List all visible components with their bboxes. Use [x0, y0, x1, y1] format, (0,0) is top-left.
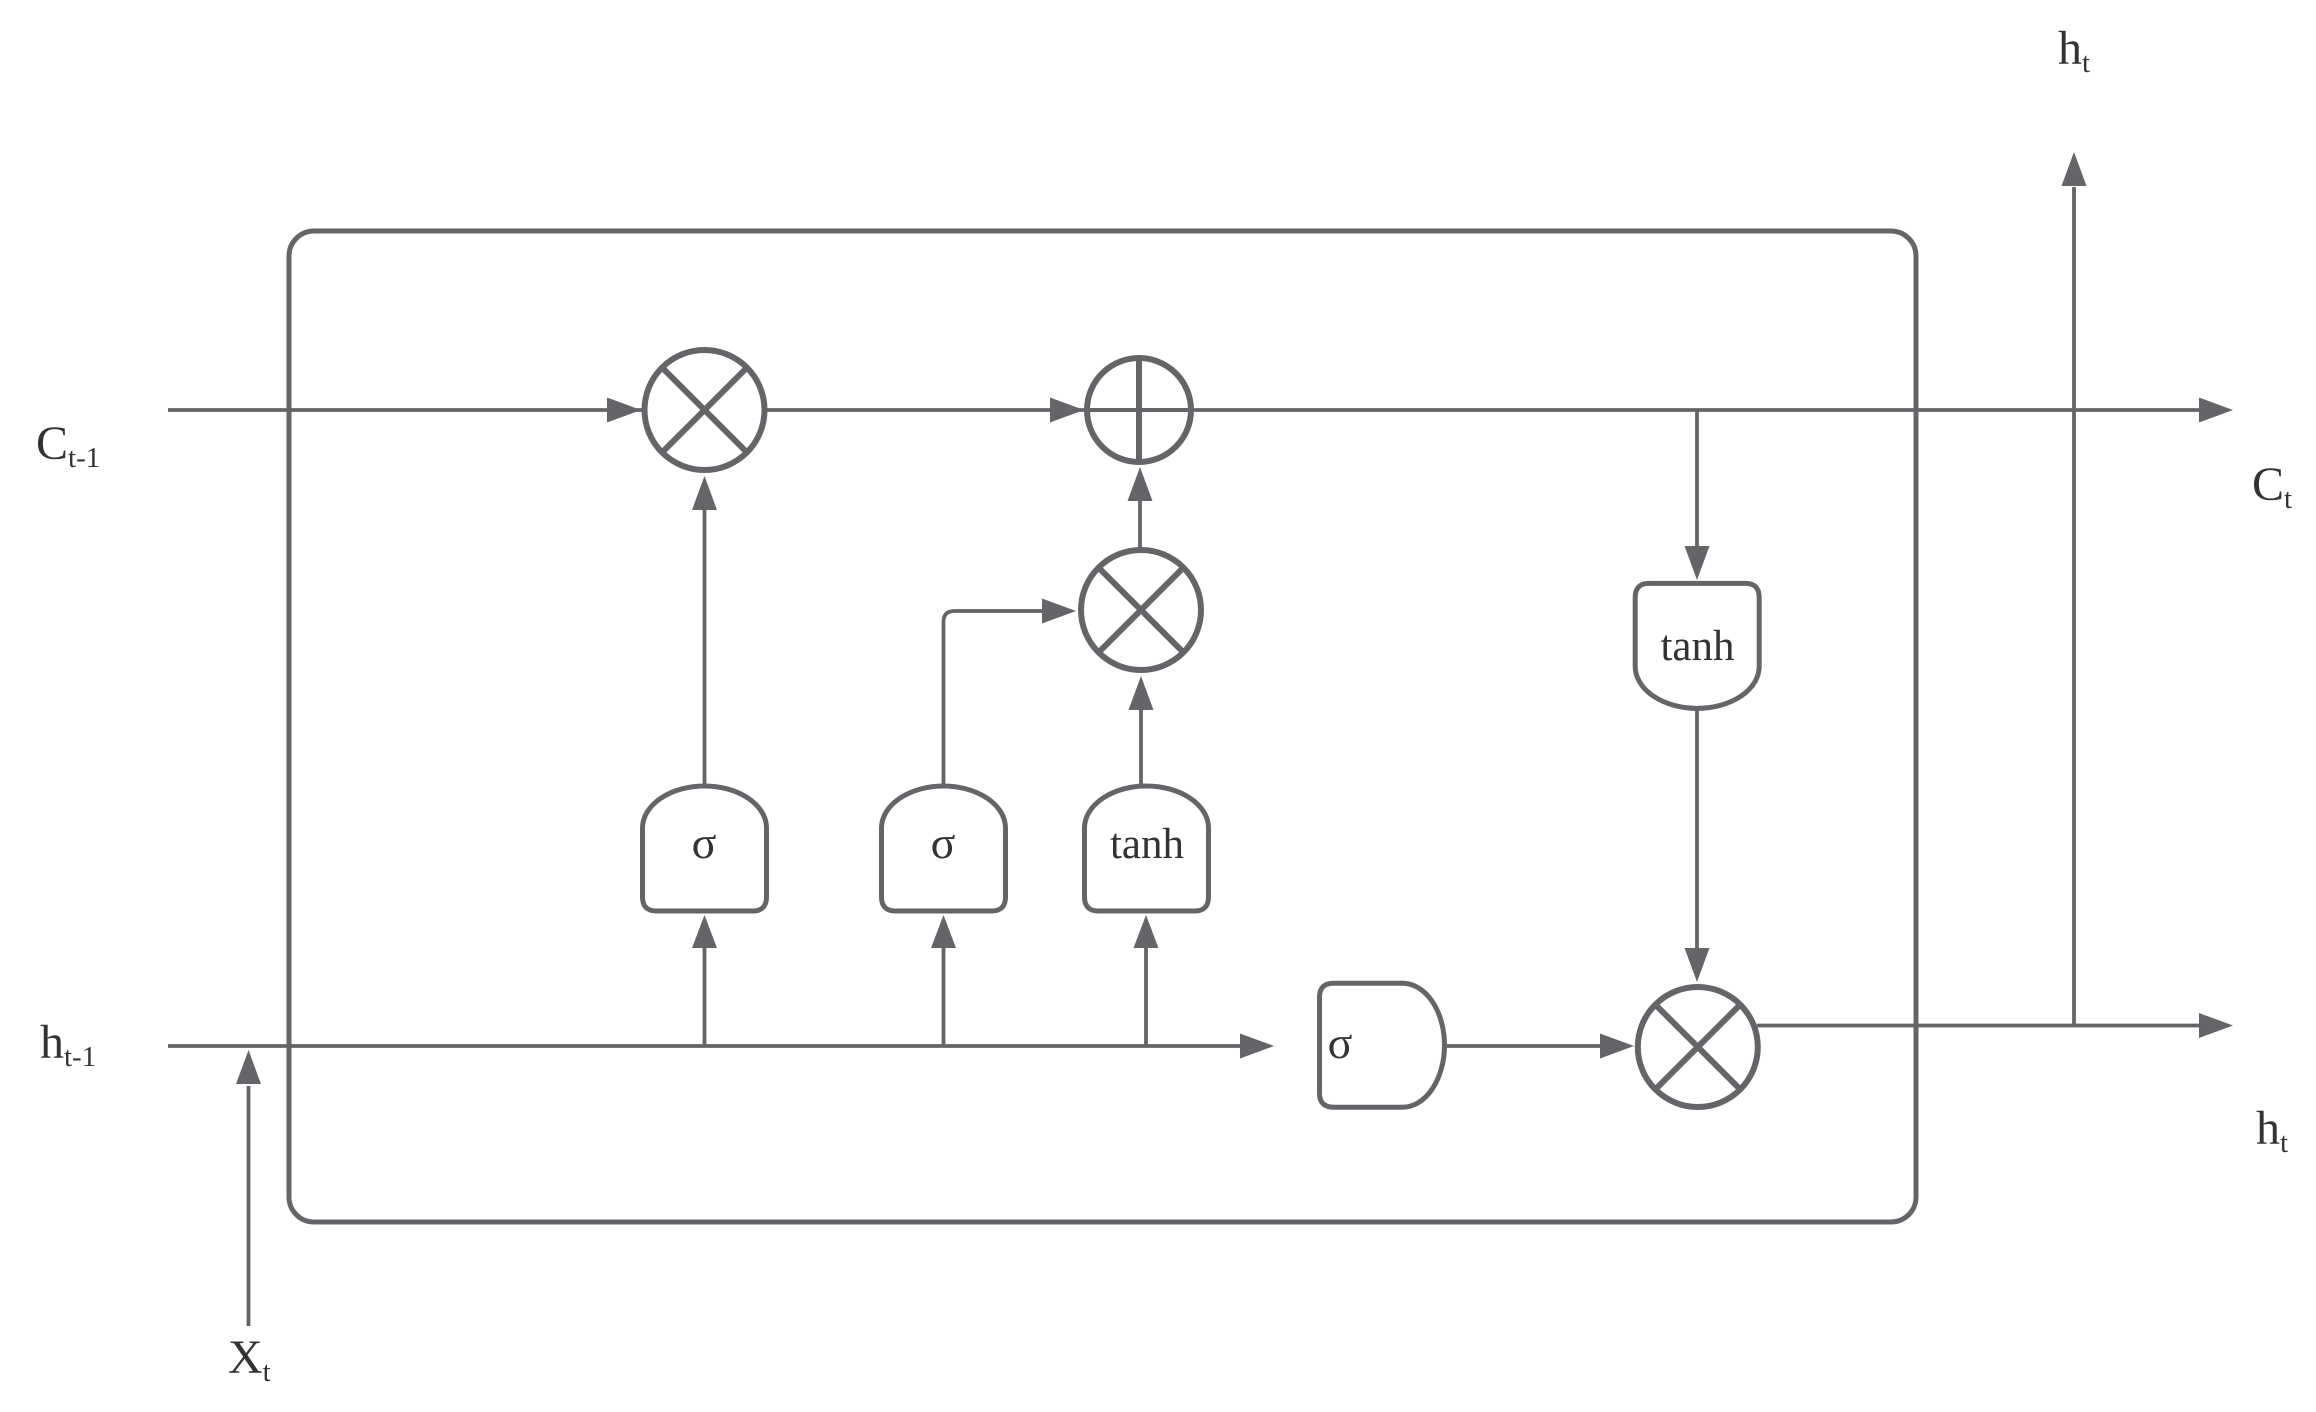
svg-text:σ: σ — [692, 817, 717, 868]
svg-text:tanh: tanh — [1660, 623, 1734, 670]
svg-text:σ: σ — [1328, 1017, 1353, 1068]
svg-text:σ: σ — [931, 817, 956, 868]
svg-text:tanh: tanh — [1110, 821, 1184, 868]
